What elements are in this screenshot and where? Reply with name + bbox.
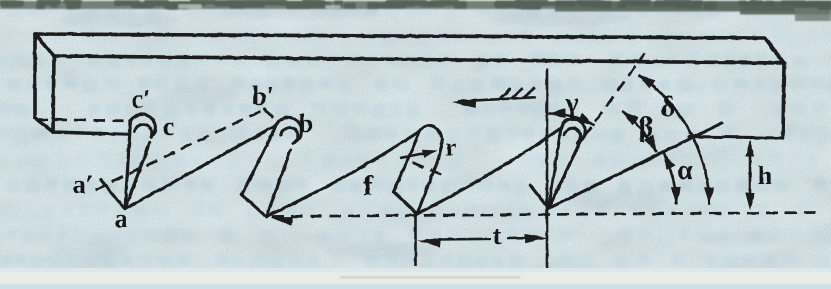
tooth 1 cap outer arc (tip c) [130, 114, 155, 134]
t dimension line right part [507, 236, 532, 239]
tooth 2 right edge (face) [267, 150, 291, 217]
svg-text:h: h [758, 161, 773, 190]
tooth 4 right edge (face) [549, 141, 581, 209]
svg-text:a: a [115, 204, 128, 233]
tooth 3 right edge (face) [417, 160, 438, 214]
tooth 2 cap inner arc [281, 128, 298, 144]
r dashed radius arc [413, 163, 448, 177]
vertical reference line [546, 68, 549, 268]
tooth 3 cap outer arc [420, 126, 442, 160]
bar front bottom edge left piece [53, 132, 128, 135]
alpha arc [664, 152, 677, 204]
bar hidden bottom back edge (dashed) [36, 120, 126, 121]
baseline left arrowhead [271, 217, 293, 226]
bar bottom-left corner diagonal [35, 118, 53, 132]
beta arc [622, 111, 657, 152]
tooth 3 left edge [394, 131, 420, 192]
tooth 3 to tooth 4 back line [417, 128, 561, 214]
tooth 2 cap outer arc (tip b) [277, 117, 302, 141]
hatch tick 2 [512, 88, 523, 98]
hatch tick 1 [501, 89, 512, 99]
tooth 4 cap outer arc [561, 119, 585, 141]
tooth 1 right edge (face) [125, 143, 150, 210]
tooth 3 gullet depth edge [394, 192, 417, 214]
bar front right vertical edge [783, 63, 784, 138]
svg-text:c′: c′ [132, 85, 151, 114]
tooth 4 back extension line [549, 123, 723, 209]
motion arrow head [452, 99, 476, 109]
tooth 4 cap inner arc [564, 128, 580, 143]
svg-text:a′: a′ [73, 170, 93, 199]
svg-text:t: t [493, 221, 502, 250]
dashed back profile a' to b' [95, 109, 265, 190]
svg-text:b: b [299, 109, 313, 138]
gamma arc [549, 113, 595, 125]
svg-text:β: β [639, 112, 654, 143]
r radius arrow [400, 152, 430, 158]
delta arc [639, 75, 710, 204]
tooth 1 to tooth 2 back line [125, 125, 277, 209]
bar top-right corner diagonal [765, 38, 784, 63]
dashed face extension (delta line) [584, 53, 645, 137]
scan splotches [50, 5, 780, 258]
svg-text:b′: b′ [252, 82, 274, 111]
bar left back vertical edge [33, 34, 37, 118]
svg-text:γ: γ [564, 88, 578, 119]
t dimension left vertical [414, 214, 417, 266]
b' back tip edge [265, 109, 273, 117]
tooth 2 gullet depth edge [242, 195, 267, 218]
top scan edge strip [0, 0, 831, 2]
bar front-left vertical edge [53, 56, 54, 132]
tooth 1 left edge [125, 122, 131, 209]
t dimension line left part [437, 238, 491, 241]
tooth 2 to tooth 3 back line f [268, 131, 421, 216]
bar front top edge [54, 56, 784, 63]
hatch tick 3 [524, 88, 535, 97]
tooth 2 left edge [242, 125, 277, 195]
svg-text:δ: δ [661, 92, 676, 123]
tooth 1 gullet depth edge (to a') [101, 180, 125, 209]
bottom scan strip [0, 271, 831, 284]
bar top-left corner diagonal [35, 34, 54, 56]
tooth 4 left edge [549, 128, 562, 209]
tooth 1 cap inner arc [135, 124, 152, 137]
bar front bottom edge right piece [689, 137, 783, 139]
tooth 4 gullet depth edge [530, 185, 549, 209]
baseline dashed [272, 213, 820, 217]
svg-text:f: f [363, 170, 373, 202]
svg-text:α: α [677, 155, 693, 186]
h dimension line [749, 145, 752, 204]
svg-text:c: c [163, 112, 175, 141]
svg-text:r: r [446, 135, 457, 161]
motion arrow shaft [458, 97, 536, 101]
bar back top edge [35, 34, 765, 38]
